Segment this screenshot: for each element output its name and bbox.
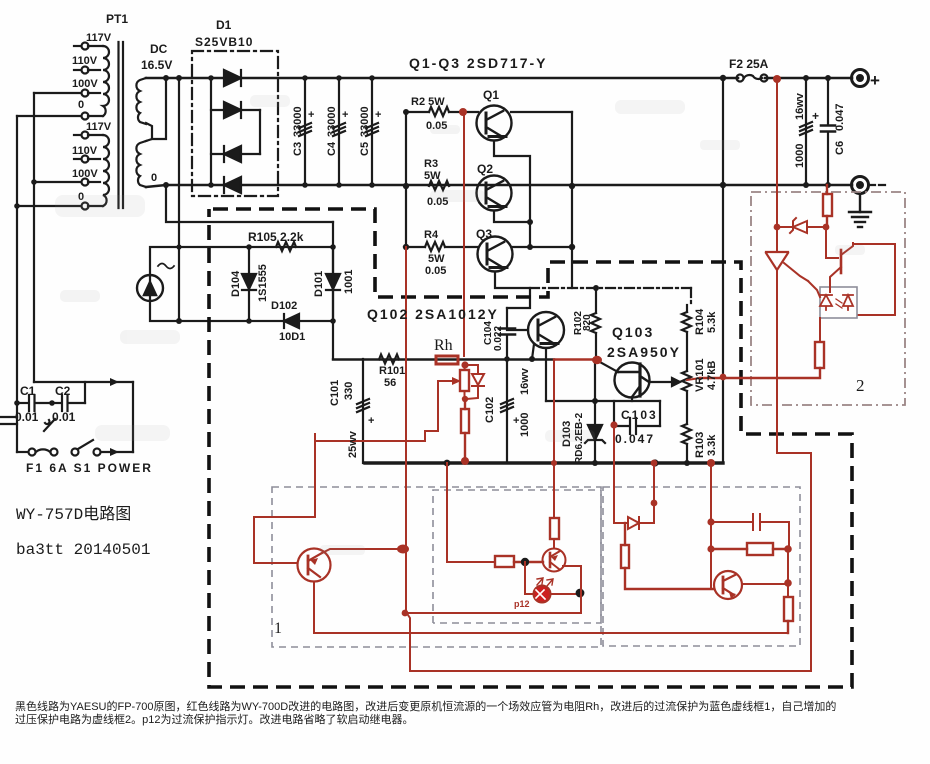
capacitor C4 [333,78,345,185]
wire Q102 emitter [532,344,534,359]
switch S1 and fuse F1 row [17,440,133,456]
capacitor C6 [821,78,835,185]
terminal output minus [852,177,869,194]
dashed box p12 [433,490,601,623]
wire Q3 emitter link [495,272,530,308]
diode red series [614,517,654,529]
ground [849,194,871,227]
resistor R103 [682,424,691,463]
capacitor C102 [501,359,513,463]
wire red from C103 node down [613,425,615,523]
wire red to VR101 wiper [687,378,700,380]
node lamp box dots [246,244,336,324]
diode D1b [211,102,260,118]
resistor R3 [429,181,449,190]
wire Q1 collector [511,111,572,113]
resistor red box2 bottom [700,342,824,378]
node red right branch [707,459,715,553]
wire secondary lower feed [166,185,333,222]
bridge rectifier D1 box [192,51,278,196]
diode red bypass [465,365,484,399]
diode red zener box2 [779,218,826,233]
transistor discrete box2 (red) [826,227,853,287]
wire red SCR bottom link [777,453,811,671]
diode D101 [326,274,340,290]
wire Q102 base [507,329,528,331]
transistor Q2 [477,176,512,211]
wire red main drop from R4 node [406,247,410,671]
node bridge dots [208,75,214,188]
wire Q103 collector bottom [631,397,633,401]
transistor overcurrent sense (red) [298,549,331,582]
transistor p12 driver (red) [543,549,566,572]
node output vertical dots [720,75,726,188]
wire primary tap 0-1 [17,115,81,117]
node LED out [576,589,585,598]
fuse F2 [737,75,768,82]
resistor red box2 top [823,185,832,227]
wire red base path into box1 [254,434,315,563]
lamp box enclosure [150,247,333,321]
wire secondary to lamp circuit [178,78,180,321]
wire Q2 emitter link [494,211,530,222]
dashed box 2 overvoltage [751,192,905,405]
node red mid [784,545,792,587]
node red C103 tap [610,421,617,428]
transformer PT1 core [119,42,124,208]
diode D1a [224,70,241,86]
transformer PT1 secondary winding top [136,78,152,141]
wire mains entry stubs [0,417,17,424]
diode D102 [284,314,299,328]
resistor R2 [406,107,478,116]
wire Q103 base link [598,361,618,372]
transistor Q102 [528,312,564,348]
resistor red p12 base [495,556,543,567]
node red fuse tap [773,75,829,230]
node output caps dots [803,75,831,188]
lamp PL1 [137,264,174,302]
scan noise texture [55,95,865,555]
transistor FET replacement (red) [438,364,469,399]
node dots primary [14,179,55,406]
node red bus dot [551,356,602,466]
resistor red below diode [621,523,714,589]
wire red from bus node down [553,361,555,518]
resistor R4 [406,242,478,251]
capacitor 1000 16wv [800,78,812,185]
wire secondary center tap drop [152,78,166,139]
wire Q102 collector down [545,348,547,401]
capacitor C101 [357,359,369,463]
resistor red mid [711,543,788,555]
wire Q103 emitter to VR101 [649,378,680,386]
wire inner dash-dot boundary [530,288,691,303]
dashed box right protection [603,487,800,646]
wire main mid bus [146,185,852,187]
capacitor C2 [52,395,85,411]
wire primary tap 0-2 [17,205,81,207]
capacitor C3 [299,78,311,185]
wire Q collector rail [571,112,573,288]
wire bridge output vertical [259,110,261,154]
node red drop [651,460,658,507]
wire left vertical B [33,93,35,382]
node emitter link dots [527,219,533,250]
node secondary dots [163,75,182,324]
wire bridge left vertical [210,78,212,185]
node red source rail [461,396,469,465]
capacitor C1 [17,395,52,411]
wire regulator top bus [333,358,554,360]
transistor Q103 [615,363,650,398]
wire red collector to node [322,549,404,553]
wire red from fuse node down [776,80,778,219]
wire R2-R4 left rail [405,112,407,247]
wire p12 emitter loop [405,566,581,613]
capacitor C5 [366,78,378,185]
wire red opto output chain [820,287,830,342]
node red p12 base [521,558,529,566]
node red VR tap [720,374,727,381]
LED p12 (red) [525,562,580,603]
switch small interlock mark [44,419,55,431]
transformer PT1 secondary winding bottom [136,141,146,187]
node left rail dots [403,109,409,250]
wire red right branch vertical [710,463,712,589]
wire D101 column to bus [332,222,334,359]
wire red base tap drop [463,112,465,356]
resistor R104 [682,305,691,371]
wire red box2 loop [853,244,895,315]
node D103 [592,398,598,466]
wire p12 collector chain [553,539,555,548]
potentiometer VR101 [682,371,691,424]
diode D1c [211,146,260,162]
wire primary tap 100V-2 [34,181,81,183]
wire AC top link [34,378,133,386]
wire Q1 emitter link [494,141,530,248]
node red collector [397,545,409,617]
resistor red right vertical [784,597,793,633]
wire red lower link [410,670,811,672]
capacitor C103 [614,401,660,434]
wire C2 up [84,382,86,403]
node R102 top [504,285,599,362]
node collector rail dots [569,183,575,250]
resistor R102 [591,288,600,359]
resistor red above p12 transistor [550,518,559,539]
wire red gate return [315,381,438,441]
capacitor C104 [499,308,515,359]
diode D103 zener [585,359,605,463]
big dashed boundary of original schematic [209,209,852,687]
node bottom rail dots [444,459,690,466]
resistor R101 [379,355,399,364]
wire output vertical [722,78,724,463]
wire red opto input [808,281,820,297]
wire primary tap 100V-1 [34,92,81,94]
transistor crowbar driver (red) [714,571,742,599]
wire red crowbar collector [742,549,788,597]
dashed box 1 [272,487,601,647]
optocoupler (red/gray) [820,287,857,318]
resistor red source (vertical) [461,399,469,461]
wire AC right vertical [132,382,134,452]
transformer PT1 primary winding 2 [74,132,109,210]
wire red bus segment [554,358,597,360]
wire Q3 collector [512,246,572,248]
transformer PT1 primary winding 1 [74,43,109,120]
thyristor SCR (red) [766,219,808,453]
capacitor red top [711,514,789,549]
wire bottom rail [365,461,723,464]
wire red rail drop right of D103 [653,463,655,523]
diode D104 [242,247,256,321]
resistor Rh (red) [436,356,458,364]
wire red rail to p12 branch [447,463,495,562]
resistor R105 [276,242,296,251]
transistor Q1 [477,106,512,141]
wire after minus terminal dashes [869,184,886,186]
wire red emitter down [314,582,788,633]
wire main top bus [146,77,852,80]
node red base tap [459,108,469,369]
diode D1d [224,177,241,193]
transistor Q3 [478,237,513,272]
node cap bus dots [302,75,375,188]
wire left vertical A [16,116,18,452]
terminal output plus [852,70,869,87]
wire Q103 block bottom link [546,400,660,402]
